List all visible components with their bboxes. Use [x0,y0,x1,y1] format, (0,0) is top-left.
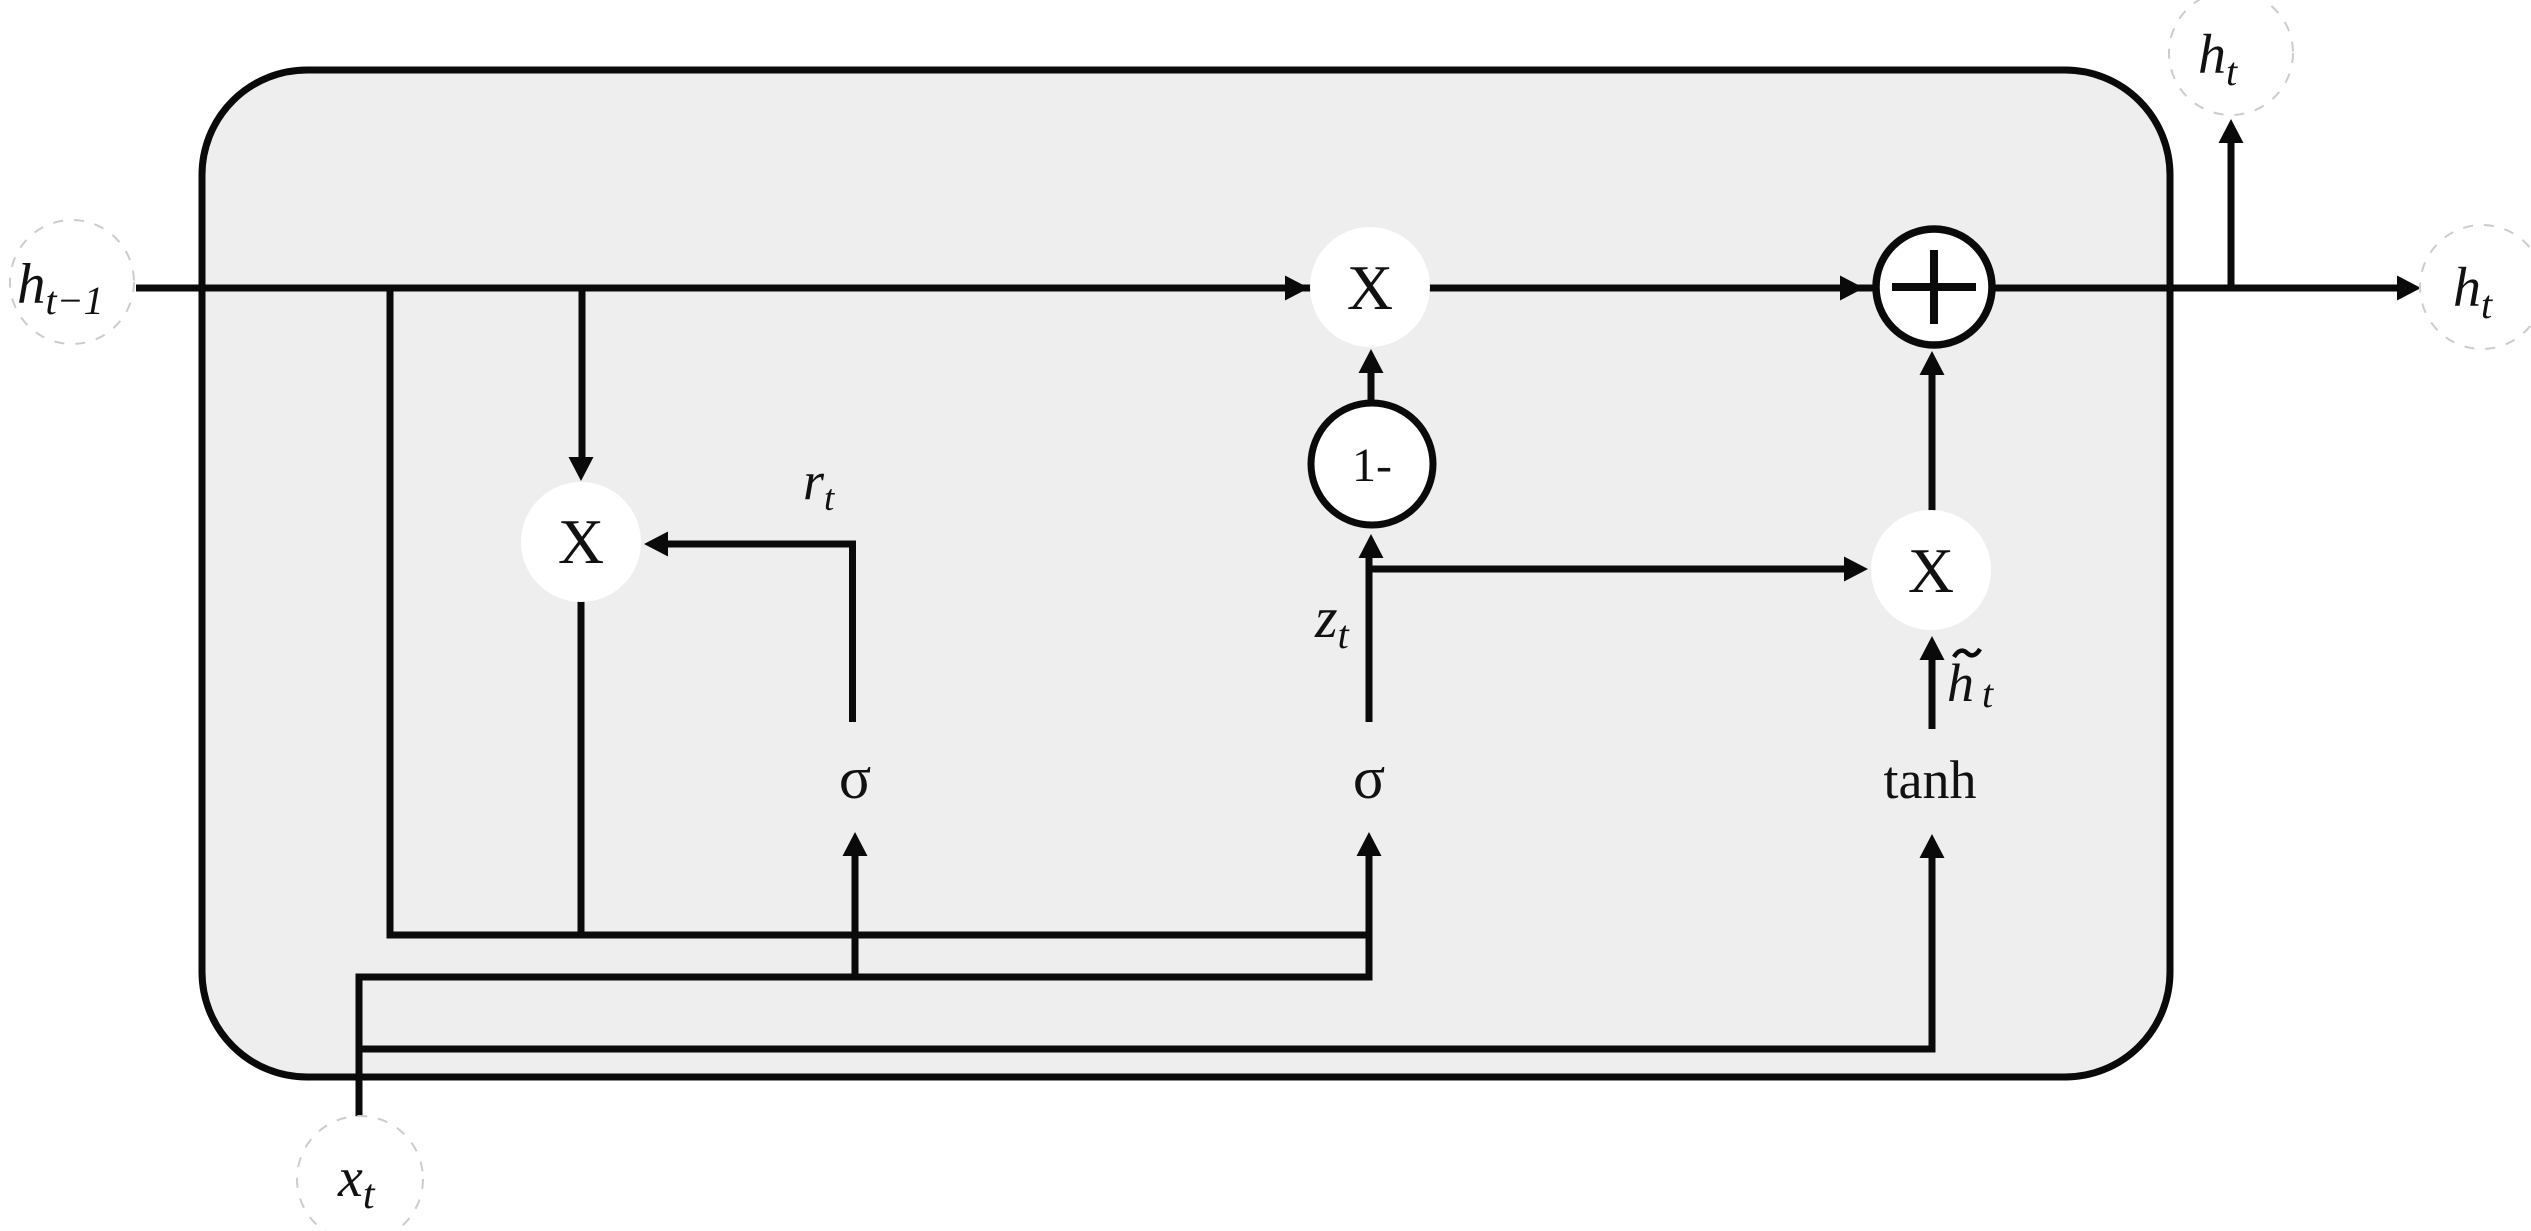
svg-text:h: h [1947,653,1974,713]
svg-text:σ: σ [839,745,871,811]
svg-text:1-: 1- [1352,439,1392,492]
svg-text:X: X [1347,252,1393,323]
svg-text:tanh: tanh [1884,750,1977,810]
svg-text:t: t [1982,671,1994,716]
svg-text:σ: σ [1353,745,1385,811]
svg-text:X: X [1908,535,1954,606]
svg-text:X: X [558,506,604,577]
